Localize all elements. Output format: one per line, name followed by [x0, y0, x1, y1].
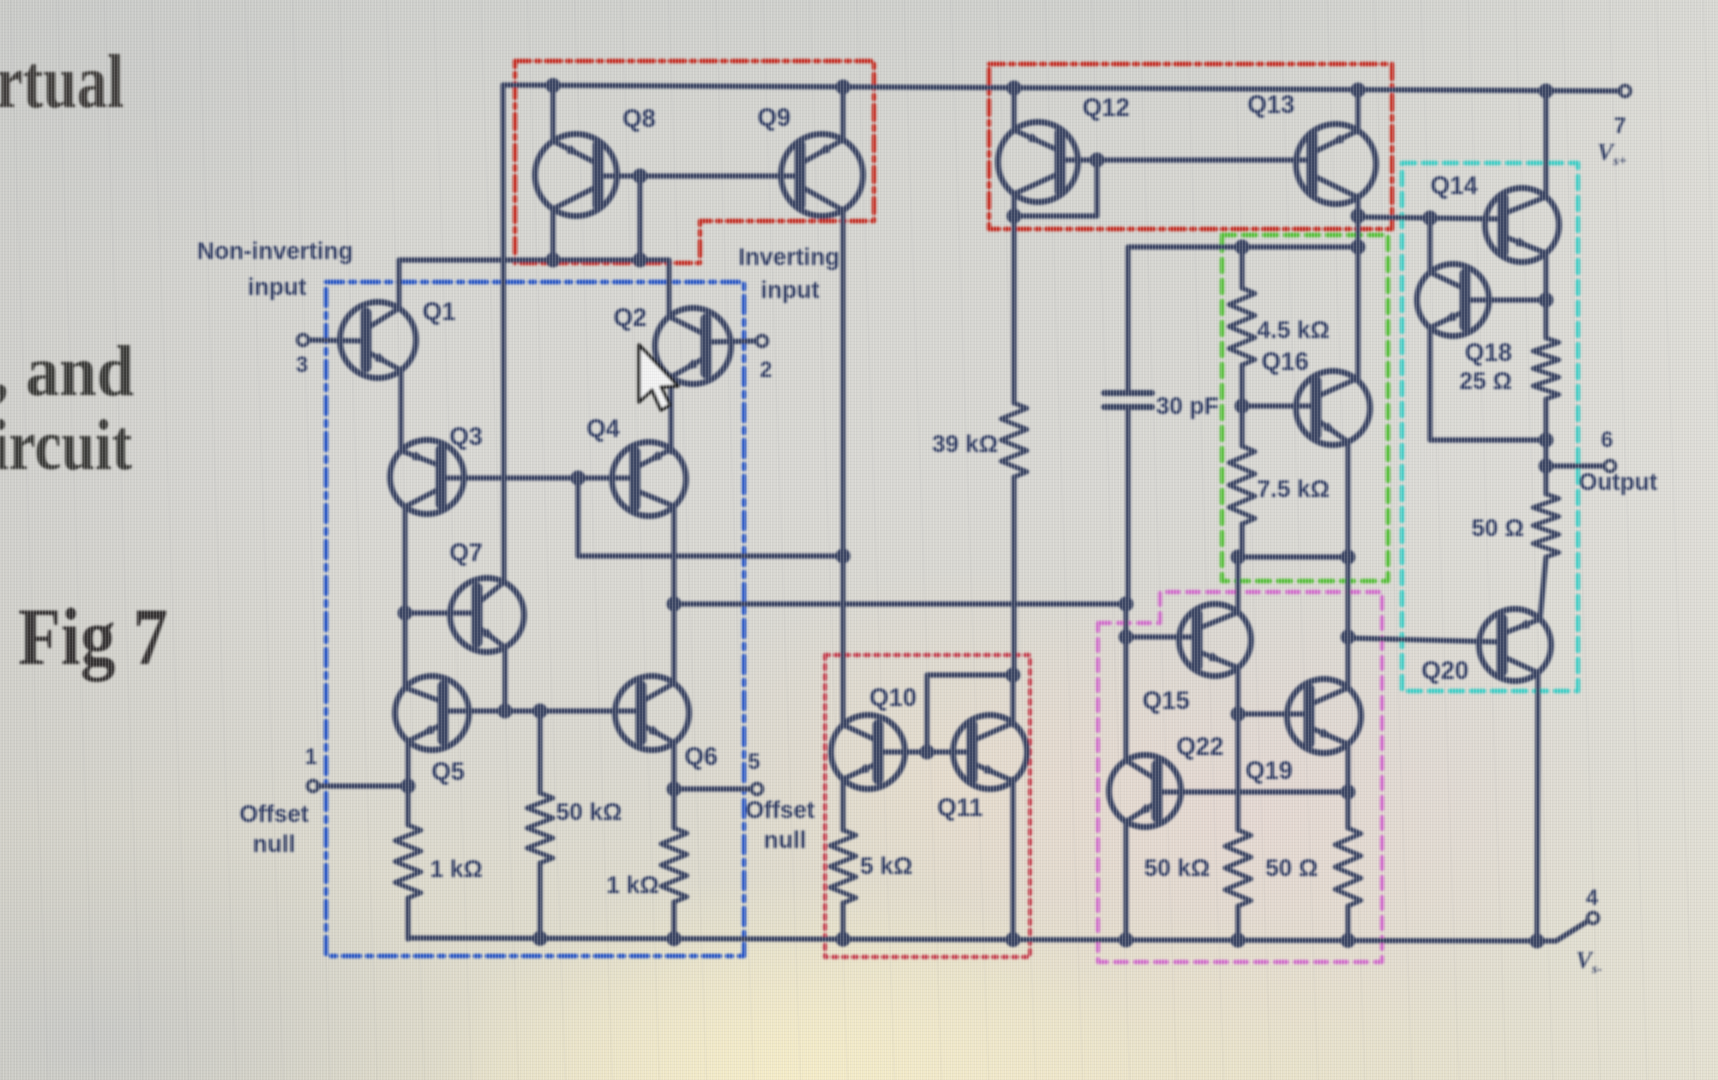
svg-text:4.5 kΩ: 4.5 kΩ	[1257, 317, 1330, 344]
resistor R1 1 kOhm	[395, 825, 421, 898]
wire Q14 collector to rail	[1543, 91, 1548, 197]
junction Q18 emitter tap	[1539, 433, 1554, 448]
junction Q22 base tap	[1341, 785, 1356, 800]
wire Q16 base	[1242, 403, 1316, 408]
wire R1 to rail	[405, 898, 410, 939]
wire Q20 collector to rail	[1537, 673, 1538, 940]
resistor R5 39 kOhm	[1001, 403, 1027, 477]
junction 4.5k tap	[1235, 240, 1250, 255]
resistor R10 50 Ohm (output)	[1533, 494, 1559, 557]
junction first-stage output	[667, 597, 682, 612]
wire first-stage output to second stage	[674, 601, 1126, 606]
wire node to compensation cap	[1128, 247, 1358, 390]
wire Q11 collector	[1010, 675, 1015, 725]
svg-text:Fig 7: Fig 7	[18, 591, 168, 682]
wire base drop to collector bus	[637, 176, 642, 260]
resistor R12 50 Ohm	[1335, 828, 1361, 906]
transistor Q22	[1109, 755, 1181, 827]
stage box: Q10/Q11 bias mirror (red dotted)	[825, 655, 1030, 957]
wire Q16 emitter down to Q19 collector	[1345, 442, 1350, 688]
junction Q12 emitter on rail	[1007, 81, 1022, 96]
junction Q8 emitter on rail	[546, 78, 561, 93]
wire Q18 base	[1465, 297, 1546, 302]
wire Q15 collector	[1235, 557, 1240, 612]
transistor Q16	[1296, 371, 1370, 445]
transistor Q13	[1296, 124, 1376, 204]
svg-text:Q8: Q8	[622, 105, 655, 133]
junction Q15 base tap	[1119, 630, 1134, 645]
junction rail x=674	[667, 931, 682, 946]
wire R3 to rail	[671, 902, 676, 940]
junction Q11 collector node	[1006, 668, 1021, 683]
wire Q13 collector down	[1355, 196, 1360, 380]
wire R9 to output node	[1543, 399, 1548, 494]
junction Q12 collector node	[1007, 209, 1022, 224]
svg-text:Q4: Q4	[586, 415, 619, 443]
svg-text:Q13: Q13	[1247, 91, 1294, 119]
junction rail x=1537	[1530, 934, 1545, 949]
svg-text:Q15: Q15	[1142, 687, 1189, 715]
wire 4.5k from node	[1239, 247, 1244, 288]
junction Q7 base tap	[398, 606, 413, 621]
junction pin1 tap	[401, 779, 416, 794]
wire Q5 emitter to R1	[405, 741, 410, 825]
svg-text:5 kΩ: 5 kΩ	[860, 853, 913, 880]
wire Q1 emitter to Q3 emitter	[398, 371, 403, 450]
transistor Q1	[340, 302, 416, 378]
wire Q3 collector down to Q5 collector	[402, 507, 407, 687]
transistor Q9	[781, 134, 863, 216]
svg-text:Q19: Q19	[1245, 757, 1292, 785]
wire Q13 collector to Q14 base	[1358, 217, 1503, 219]
pin 4 terminal (V-)	[1588, 913, 1599, 924]
wire Q14 emitter down	[1543, 253, 1548, 338]
wire Q15/Q22 node drop	[1123, 604, 1128, 761]
svg-text:Q22: Q22	[1176, 733, 1223, 761]
svg-text:50 kΩ: 50 kΩ	[556, 799, 622, 826]
wire Q22 base	[1157, 789, 1348, 794]
svg-text:input: input	[761, 277, 820, 304]
wire Q12 emitter to rail	[1011, 88, 1016, 130]
wire R10 to Q20 emitter	[1540, 557, 1546, 619]
pin 7 terminal (V+)	[1620, 86, 1631, 97]
wire base drop to Q9 collector net	[578, 478, 843, 556]
resistor R4 5 kOhm	[830, 830, 856, 903]
stage box: Q8/Q9 current mirror (red dash-dot)	[515, 61, 874, 263]
svg-text:Offset: Offset	[239, 801, 308, 828]
junction rail x=843	[836, 932, 851, 947]
svg-text:Offset: Offset	[745, 797, 814, 824]
transistor Q3	[390, 440, 464, 514]
wire output node to pin 6	[1546, 463, 1603, 468]
junction Q3/Q4 base drop	[571, 471, 586, 486]
svg-text:Q2: Q2	[613, 304, 646, 332]
svg-text:2: 2	[760, 357, 772, 382]
wire Q7 base	[405, 610, 477, 615]
junction rail x=1348	[1341, 933, 1356, 948]
svg-text:50 Ω: 50 Ω	[1265, 855, 1318, 882]
stage box: input stage (blue dash-dot)	[326, 282, 744, 956]
wire Q12 diode connection	[1014, 160, 1097, 216]
transistor Q2	[655, 308, 731, 384]
junction Q19 base tap	[1231, 707, 1246, 722]
wire Q12 collector to R5	[1011, 194, 1016, 403]
svg-text:Inverting: Inverting	[738, 244, 839, 271]
junction Q10/Q11 base	[920, 745, 935, 760]
wire Q15 base	[1126, 634, 1197, 639]
svg-text:Q18: Q18	[1465, 339, 1512, 367]
svg-text:Q7: Q7	[449, 539, 482, 567]
transistor Q19	[1287, 679, 1361, 753]
svg-text:Vs+: Vs+	[1597, 140, 1626, 169]
wire Q16 emitter net (y=557)	[1236, 554, 1348, 559]
wire Q2 emitter to Q4 emitter	[668, 377, 673, 452]
svg-text:Q20: Q20	[1421, 657, 1468, 685]
wire Q13 emitter to rail	[1355, 90, 1360, 132]
stage box: output stage (cyan dashed)	[1402, 163, 1578, 691]
stage box: Q15/Q19/Q22 protection (magenta dashed)	[1098, 592, 1382, 962]
wire Q9 collector down to Q10 collector	[840, 209, 845, 724]
svg-text:1 kΩ: 1 kΩ	[430, 856, 483, 883]
svg-text:rtual: rtual	[0, 40, 124, 124]
svg-text:1 kΩ: 1 kΩ	[606, 872, 659, 899]
resistor R8 7.5 kOhm	[1229, 446, 1255, 524]
wire Q18 collector	[1427, 218, 1432, 272]
junction output node	[1539, 459, 1554, 474]
wire C1 bottom to Q15/Q22 base node	[1125, 410, 1130, 604]
svg-text:30 pF: 30 pF	[1156, 393, 1219, 420]
wire Q3/Q4 base tie	[441, 475, 635, 480]
wire Q8/Q9 base tie	[598, 173, 800, 178]
junction Q13 collector / Q14 base tap	[1351, 209, 1366, 224]
svg-text:Q11: Q11	[937, 794, 983, 822]
junction rail x=1126	[1119, 932, 1134, 947]
junction Q16 base	[1235, 399, 1250, 414]
svg-text:5: 5	[748, 749, 760, 774]
junction base drop on bus	[633, 253, 648, 268]
svg-text:Q12: Q12	[1082, 94, 1129, 122]
pin 6 terminal (output)	[1605, 461, 1616, 472]
transistor Q12	[998, 122, 1078, 202]
transistor Q15	[1179, 604, 1251, 676]
wire Q19 emitter down	[1345, 744, 1350, 828]
junction pin5 tap	[667, 782, 682, 797]
transistor Q6	[615, 676, 689, 750]
svg-text:input: input	[248, 274, 307, 301]
junction Q7 emitter on base tie	[498, 704, 513, 719]
wire Q6 emitter to R3	[671, 744, 676, 828]
junction on Q9 collector line	[836, 549, 851, 564]
transistor Q10	[831, 715, 905, 789]
wire R11 to rail	[1235, 906, 1240, 940]
junction at Q15/Q22 base node	[1119, 597, 1134, 612]
svg-text:Vs-: Vs-	[1576, 948, 1602, 977]
svg-text:50 kΩ: 50 kΩ	[1144, 855, 1210, 882]
svg-text:3: 3	[296, 352, 308, 377]
transistor Q8	[535, 134, 617, 216]
wire Q22 emitter to rail	[1123, 821, 1128, 940]
junction rail x=1238	[1231, 933, 1246, 948]
pin 3 terminal (non-inverting input)	[298, 335, 309, 346]
wire V+ rail (pin7)	[503, 85, 1620, 91]
svg-text:Q5: Q5	[431, 758, 464, 786]
junction rail x=540	[533, 931, 548, 946]
wire Q19 base	[1238, 711, 1309, 716]
svg-text:Q6: Q6	[684, 743, 717, 771]
wire R8 to Q16 emitter net	[1239, 524, 1244, 557]
junction Q20 base tap	[1341, 630, 1356, 645]
wire Q11 base	[927, 749, 972, 754]
resistor R11 50 kOhm	[1225, 830, 1251, 906]
junction Q12 diode tap	[1090, 153, 1105, 168]
stage box: VBE multiplier Q16 (green dashed)	[1222, 235, 1388, 581]
wire Q19 collector node to Q20 base	[1348, 638, 1502, 642]
junction Q13 emitter on rail	[1351, 83, 1366, 98]
transistor Q5	[395, 676, 469, 750]
wire V- ground rail	[408, 921, 1588, 941]
svg-text:, and: , and	[0, 331, 134, 411]
wire Q8 emitter to rail	[550, 85, 555, 141]
resistor R9 25 Ohm	[1533, 338, 1559, 399]
svg-text:Q16: Q16	[1261, 348, 1308, 376]
wire R5 to Q11 collector node	[1011, 477, 1016, 676]
transistor Q20	[1479, 609, 1551, 681]
wire pin1 to Q5 emitter	[318, 783, 408, 788]
resistor R7 4.5 kOhm	[1229, 288, 1255, 365]
junction Q18 collector tap	[1423, 211, 1438, 226]
pin 2 terminal (inverting input)	[757, 336, 768, 347]
resistor R2 50 kOhm (input stage)	[527, 793, 553, 863]
junction Q15 collector tap	[1231, 550, 1246, 565]
svg-text:Output: Output	[1579, 469, 1658, 496]
svg-text:1: 1	[305, 744, 317, 769]
svg-text:50 Ω: 50 Ω	[1471, 515, 1524, 542]
mouse cursor	[639, 345, 678, 410]
svg-text:4: 4	[1586, 885, 1599, 910]
wire Q15 emitter down	[1235, 668, 1240, 830]
transistor Q11	[953, 715, 1027, 789]
wire 50k to ground rail	[537, 863, 542, 940]
wire Q11 emitter to rail	[1010, 779, 1015, 940]
svg-text:Non-inverting: Non-inverting	[197, 238, 353, 265]
junction rail x=1013	[1006, 932, 1021, 947]
stage box: Q12/Q13 mirror (red dash-dot)	[989, 64, 1392, 229]
wire R4 to rail	[840, 903, 845, 940]
svg-text:39 kΩ: 39 kΩ	[932, 431, 998, 458]
junction Q14 collector on rail	[1539, 84, 1554, 99]
wire pin3 to Q1 base	[309, 340, 366, 341]
svg-text:Q9: Q9	[757, 104, 790, 132]
wire Q12/Q13 base tie	[1060, 157, 1312, 162]
svg-text:Q10: Q10	[869, 684, 916, 712]
transistor Q14	[1485, 188, 1559, 262]
junction Q16 emitter / Q19 collector	[1341, 550, 1356, 565]
svg-text:ircuit: ircuit	[0, 405, 132, 485]
wire R12 to rail	[1345, 906, 1350, 940]
wire base tie to 50k resistor	[537, 711, 542, 793]
junction second stage output node	[1351, 240, 1366, 255]
junction Q8 collector	[546, 253, 561, 268]
wire Q8 collector drop	[550, 209, 555, 260]
wire R7 to Q16 base node	[1239, 365, 1244, 446]
svg-text:7: 7	[1614, 113, 1626, 138]
svg-text:Q1: Q1	[422, 298, 455, 326]
wire base riser to Q11 collector node	[927, 675, 1013, 752]
junction 50k tap on base tie	[533, 704, 548, 719]
junction Q9 emitter on rail	[836, 80, 851, 95]
junction Q18 base tap	[1539, 293, 1554, 308]
svg-text:7.5 kΩ: 7.5 kΩ	[1257, 476, 1330, 503]
capacitor C1 30 pF	[1104, 390, 1152, 396]
wire Q4 collector down to Q6 collector	[671, 507, 676, 683]
wire Q10 emitter to R4	[840, 779, 845, 830]
wire Q18 emitter	[1430, 328, 1546, 440]
junction base drop	[633, 169, 648, 184]
pin 5 terminal (offset null)	[752, 784, 763, 795]
svg-text:Q3: Q3	[449, 423, 482, 451]
node input-collector bus (Q1/Q2 collectors, y=260)	[399, 260, 669, 315]
wire pin5 to Q6 emitter	[674, 786, 751, 791]
wire Q10 base	[878, 749, 927, 754]
wire Q5/Q6 base tie	[443, 708, 641, 713]
svg-text:Q14: Q14	[1430, 172, 1477, 200]
resistor R3 1 kOhm	[661, 828, 687, 902]
svg-text:6: 6	[1601, 427, 1613, 452]
transistor Q4	[612, 442, 686, 516]
wire pin2 to Q2 base	[706, 341, 756, 342]
pin 1 terminal (offset null)	[308, 781, 319, 792]
transistor Q7	[450, 578, 524, 652]
wire V+ rail left drop to Q7 collector	[503, 85, 504, 582]
svg-text:null: null	[253, 831, 296, 858]
svg-text:25 Ω: 25 Ω	[1459, 368, 1512, 395]
wire Q7 emitter	[502, 648, 507, 711]
svg-text:null: null	[764, 827, 807, 854]
wire Q9 emitter to rail	[840, 87, 845, 141]
transistor Q18	[1417, 264, 1489, 336]
wire Q20 emitter jog	[1540, 558, 1546, 619]
